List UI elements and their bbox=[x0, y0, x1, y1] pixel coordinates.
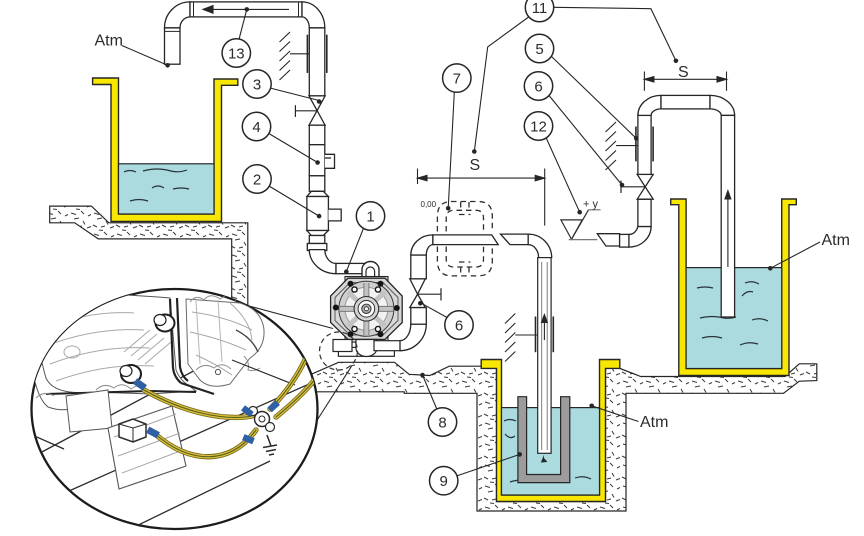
elbow top-left bbox=[638, 95, 661, 115]
left tank wave lines bbox=[124, 169, 189, 201]
main pump casting bbox=[39, 294, 196, 394]
svg-text:11: 11 bbox=[532, 0, 548, 17]
ground left bank under left tank bbox=[50, 206, 248, 312]
riser below valve bbox=[638, 199, 651, 226]
svg-text:2: 2 bbox=[253, 172, 261, 189]
discharge riser with valve 6 bbox=[400, 234, 552, 351]
pipe collars at elbow joints bbox=[165, 2, 325, 32]
junction cluster bbox=[241, 400, 280, 444]
down pipe into right tank bbox=[721, 115, 734, 317]
datum symbol (+y) bbox=[561, 210, 601, 240]
flow arrow bbox=[543, 320, 545, 340]
hex bolt B on reservoir bbox=[119, 419, 146, 442]
callout 1 bbox=[344, 202, 385, 274]
right tank (yellow) bbox=[671, 199, 797, 376]
svg-text:0,00: 0,00 bbox=[421, 200, 437, 209]
reservoir box bbox=[108, 406, 186, 489]
elbow top-right bbox=[710, 95, 735, 115]
top pipe run to left tank bbox=[165, 2, 325, 64]
callout 6 (top) bbox=[524, 72, 624, 188]
svg-text:12: 12 bbox=[530, 119, 547, 136]
right pipe clamp bars bbox=[635, 127, 637, 162]
upper port boss bbox=[156, 315, 175, 332]
detail indicator dashed circle at pump foot bbox=[320, 332, 358, 370]
small arrow at mouth bbox=[541, 455, 548, 463]
pit suction riser pipe bbox=[536, 258, 554, 463]
pit water bbox=[502, 408, 600, 495]
right casting half bbox=[186, 299, 264, 386]
pipe from top elbow down to valve 3 bbox=[309, 28, 325, 96]
small hole on casting bbox=[215, 369, 220, 374]
ground right section with pit bbox=[296, 362, 817, 511]
svg-text:Atm: Atm bbox=[822, 232, 850, 249]
flow arrow in right tank pipe bbox=[724, 189, 731, 267]
pump foot bbox=[333, 340, 352, 352]
lower port boss (cable attach) bbox=[121, 365, 141, 383]
pit (yellow lining) bbox=[481, 360, 620, 502]
vertical plate dark edge bars bbox=[170, 299, 181, 383]
svg-text:1: 1 bbox=[366, 209, 374, 226]
left vertical pipe assembly bbox=[307, 28, 368, 274]
callout 13 bbox=[222, 7, 250, 67]
right assembly: bottom stub pipe bbox=[597, 95, 734, 317]
cable end ferrules bbox=[133, 378, 147, 391]
dashed alternate pump position (7) bbox=[437, 202, 492, 276]
horizontal pipe right segment bbox=[501, 234, 529, 245]
bench back edge bbox=[232, 360, 295, 385]
valve 3 (bowtie) bbox=[309, 96, 325, 111]
dimension S (left, above dashed pump) bbox=[418, 169, 545, 226]
casting bottom dark edge bbox=[46, 391, 196, 394]
valve (right) bbox=[637, 187, 653, 199]
svg-text:6: 6 bbox=[534, 79, 542, 96]
svg-text:Atm: Atm bbox=[95, 33, 123, 50]
callout 6 (left, discharge valve) bbox=[418, 301, 473, 339]
callout 11 with two leaders bbox=[472, 0, 678, 154]
svg-text:Atm: Atm bbox=[640, 414, 668, 431]
top manifold bbox=[345, 277, 388, 282]
bottom elbow turning up bbox=[629, 227, 651, 248]
horizontal pipe (13) bbox=[190, 2, 302, 17]
bench/floor lines bbox=[30, 351, 318, 531]
svg-text:8: 8 bbox=[438, 415, 446, 432]
grounded U-pipe in pit (9) bbox=[518, 397, 570, 483]
valve 3 stem bbox=[295, 105, 317, 117]
elbow down to pit riser bbox=[528, 234, 552, 258]
callout 12 bbox=[524, 112, 582, 215]
svg-text:S: S bbox=[470, 157, 481, 174]
callout 3 bbox=[243, 70, 322, 104]
small ground symbol bbox=[263, 435, 277, 455]
pump (1) bbox=[331, 277, 403, 357]
svg-text:4: 4 bbox=[252, 119, 260, 136]
vertical drop pipe to tank (Atm end) bbox=[165, 28, 181, 64]
pump inlet hook fitting bbox=[362, 262, 379, 278]
svg-text:7: 7 bbox=[453, 71, 461, 88]
step box bbox=[66, 390, 112, 432]
detail lens (grounding detail inset) bbox=[30, 289, 318, 531]
svg-text:13: 13 bbox=[228, 46, 245, 63]
valve 6 stem bbox=[418, 288, 441, 300]
callout 8 bbox=[420, 373, 456, 436]
svg-text:S: S bbox=[678, 64, 689, 81]
svg-text:5: 5 bbox=[535, 41, 543, 58]
svg-text:9: 9 bbox=[440, 473, 448, 490]
callout 4 bbox=[242, 112, 320, 165]
bottom manifold bbox=[345, 337, 388, 342]
wall bracket (right assembly) bbox=[606, 122, 638, 170]
fitting 4 body bbox=[309, 145, 325, 176]
elbow to horizontal bbox=[411, 235, 433, 255]
elbow top-left bbox=[165, 2, 191, 28]
svg-text:6: 6 bbox=[455, 318, 463, 335]
octagonal housing bbox=[331, 278, 403, 339]
horizontal pipe left segment bbox=[433, 235, 498, 245]
callout 2 bbox=[243, 165, 322, 219]
right valve stem bbox=[621, 181, 645, 194]
pipe between 4 and dampener 2 bbox=[309, 176, 325, 192]
flow arrow in top pipe bbox=[203, 6, 289, 14]
left tank (yellow) bbox=[93, 78, 238, 222]
pit wave lines bbox=[504, 420, 591, 483]
riser above valve bbox=[638, 115, 651, 174]
pipe below dampener bbox=[309, 236, 325, 244]
dimension S (right, above right tank pipe run) bbox=[644, 72, 726, 91]
elbow top-right bbox=[302, 2, 325, 28]
right tank wave lines bbox=[697, 282, 768, 345]
callout 9 bbox=[430, 452, 523, 495]
callout 5 bbox=[525, 34, 638, 140]
elbow into pump inlet bbox=[309, 250, 336, 274]
discharge pipe to elbow bbox=[374, 341, 401, 351]
pipe between valve 3 and fitting 4 bbox=[309, 125, 325, 145]
svg-text:3: 3 bbox=[253, 77, 261, 94]
base plate bbox=[338, 347, 394, 356]
riser pipe upper bbox=[411, 255, 427, 279]
grounding cables bbox=[144, 358, 316, 457]
pump discharge hook fitting bbox=[356, 340, 401, 357]
riser pipe lower bbox=[411, 308, 427, 325]
svg-text:+ y: + y bbox=[583, 199, 598, 211]
wall bracket (pit riser) bbox=[505, 314, 538, 362]
valve 6 (left) bbox=[410, 294, 426, 307]
pump bolts bbox=[333, 281, 400, 337]
tangent lines to detail lens bbox=[249, 306, 333, 329]
wall bracket (top-left pipe) bbox=[280, 32, 327, 80]
machine casting left lobe bbox=[30, 314, 91, 410]
right tank water bbox=[686, 268, 782, 369]
horizontal top pipe bbox=[661, 95, 710, 109]
clamp bars bbox=[535, 317, 537, 353]
left tank water bbox=[119, 164, 215, 214]
inlet horizontal pipe bbox=[336, 263, 368, 273]
callout 7 bbox=[443, 64, 471, 211]
dampener 2 body bbox=[313, 191, 321, 196]
elbow up bbox=[400, 324, 426, 351]
